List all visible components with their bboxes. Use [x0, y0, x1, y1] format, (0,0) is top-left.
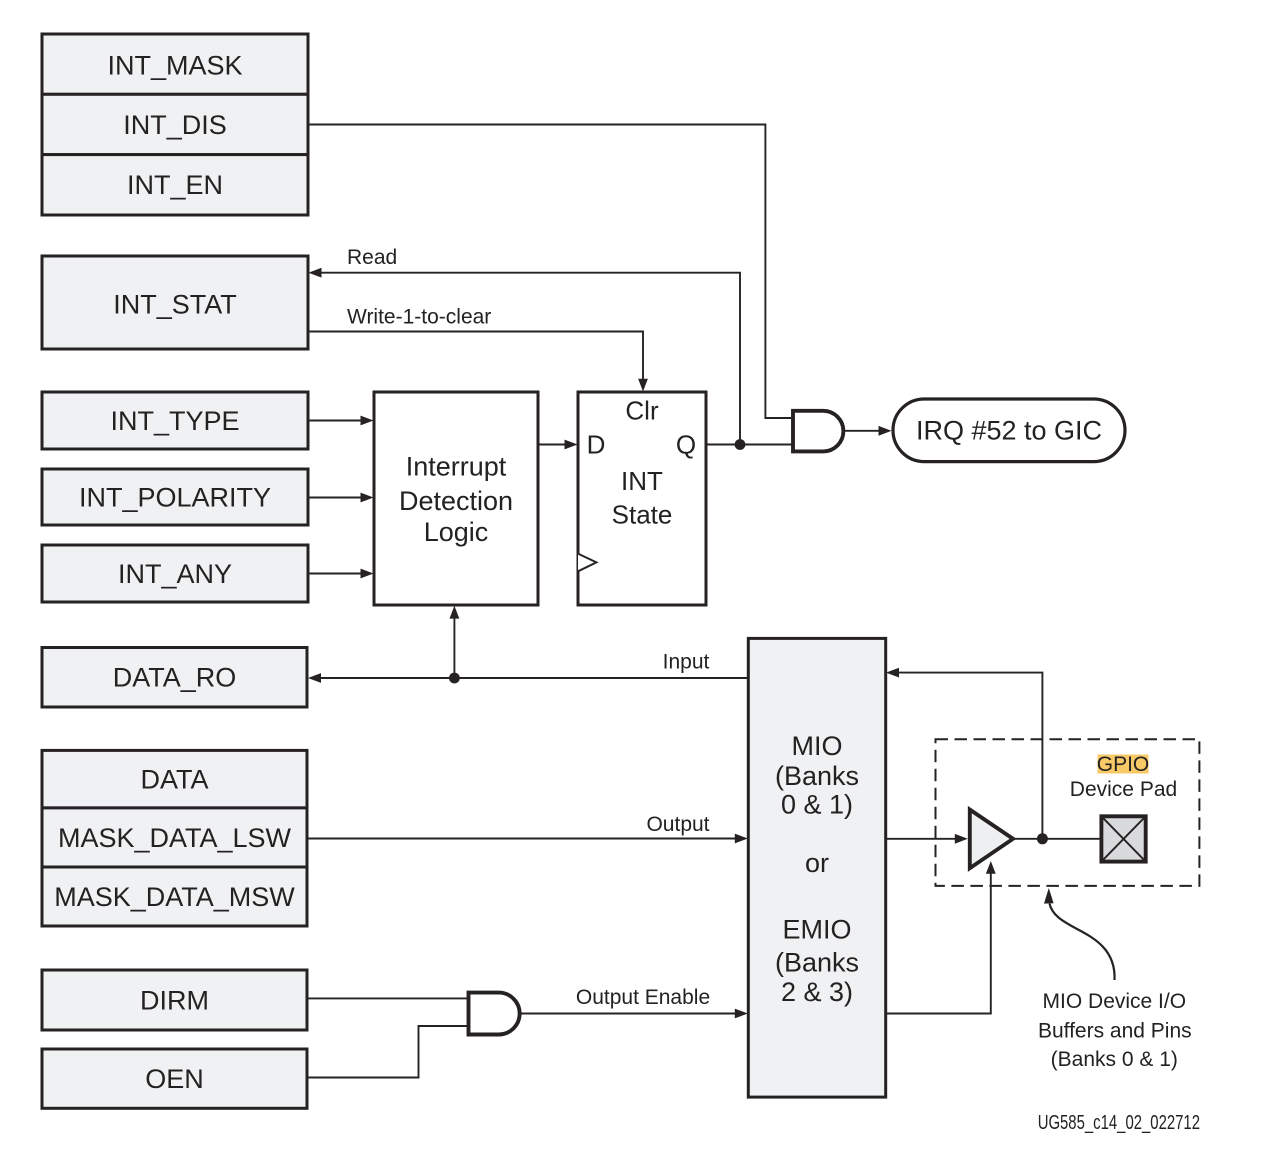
- wire Input from MIO to DATA_RO: [320, 677, 748, 679]
- svg-text:(Banks: (Banks: [775, 948, 859, 978]
- svg-text:INT_EN: INT_EN: [127, 170, 223, 200]
- arrowhead into Interrupt Detection Logic bottom: [450, 606, 460, 619]
- arrowhead Write-1-to-clear into Clr: [638, 379, 648, 392]
- register DIRM: [42, 970, 307, 1030]
- wire input node up into Interrupt Detection Logic: [453, 618, 455, 678]
- arrowhead INT_ANY: [361, 569, 374, 579]
- svg-text:UG585_c14_02_022712: UG585_c14_02_022712: [1038, 1112, 1200, 1134]
- arrowhead into buffer: [955, 834, 968, 844]
- svg-text:Output: Output: [646, 813, 709, 836]
- flip-flop INT State: [578, 392, 706, 605]
- svg-text:INT_ANY: INT_ANY: [118, 559, 232, 589]
- svg-text:Detection: Detection: [399, 486, 513, 516]
- svg-text:DATA_RO: DATA_RO: [113, 663, 237, 693]
- arrowhead INT_POLARITY: [361, 493, 374, 503]
- node pad junction dot: [1037, 833, 1048, 844]
- svg-text:MASK_DATA_LSW: MASK_DATA_LSW: [58, 823, 292, 853]
- wire Write-1-to-clear from INT_STAT to Clr: [308, 332, 643, 380]
- svg-text:MIO: MIO: [792, 731, 843, 761]
- svg-text:(Banks 0 & 1): (Banks 0 & 1): [1051, 1048, 1178, 1071]
- register MASK_DATA_LSW: [42, 808, 307, 867]
- arrowhead callout into dashed box: [1044, 888, 1054, 904]
- wire Interrupt Detection Logic to D input: [538, 444, 566, 446]
- svg-text:D: D: [587, 430, 606, 460]
- svg-text:2 & 3): 2 & 3): [781, 977, 853, 1007]
- arrowhead into MIO right edge: [886, 668, 899, 678]
- wire INT_ANY to Interrupt Detection Logic: [308, 573, 362, 575]
- arrowhead into IRQ oval: [879, 426, 892, 436]
- svg-text:INT_POLARITY: INT_POLARITY: [79, 482, 271, 512]
- register INT_ANY: [42, 545, 308, 602]
- wire Q output to G1 bottom input: [706, 444, 793, 446]
- flip-flop clock input triangle: [578, 554, 596, 572]
- arrowhead INT_TYPE: [361, 416, 374, 426]
- register DATA: [42, 750, 307, 808]
- wire DIRM to G2 top input: [307, 997, 469, 999]
- wire output enable from MIO to buffer control: [886, 874, 991, 1014]
- svg-text:IRQ #52 to GIC: IRQ #52 to GIC: [916, 416, 1102, 446]
- buffer tri-state output driver: [970, 810, 1013, 869]
- svg-text:0 & 1): 0 & 1): [781, 790, 853, 820]
- register INT_DIS: [42, 94, 308, 154]
- arrowhead Read into INT_STAT: [309, 268, 322, 278]
- register INT_EN: [42, 155, 308, 215]
- label MIO Device I/O Buffers and Pins: [1038, 990, 1192, 1071]
- label GPIO highlighted: [1097, 753, 1150, 776]
- node Q junction dot: [735, 439, 746, 450]
- register INT_MASK: [42, 34, 308, 94]
- svg-text:Buffers and Pins: Buffers and Pins: [1038, 1020, 1192, 1043]
- svg-text:State: State: [612, 500, 673, 530]
- svg-text:Device Pad: Device Pad: [1070, 778, 1177, 801]
- wire Read feedback from node Q to INT_STAT: [320, 273, 740, 445]
- svg-text:Q: Q: [676, 430, 696, 460]
- wire INT_DIS to G1 top input: [308, 125, 793, 419]
- svg-text:Clr: Clr: [625, 396, 659, 426]
- arrowhead Output Enable into MIO: [735, 1009, 748, 1019]
- svg-text:MIO Device I/O: MIO Device I/O: [1043, 990, 1187, 1013]
- svg-text:GPIO: GPIO: [1097, 753, 1150, 776]
- svg-text:INT: INT: [621, 466, 663, 496]
- arrowhead Input into DATA_RO: [308, 673, 321, 683]
- wire INT_TYPE to Interrupt Detection Logic: [308, 420, 362, 422]
- GPIO pad square: [1101, 816, 1145, 861]
- wire INT_POLARITY to Interrupt Detection Logic: [308, 497, 362, 499]
- wire pad feedback up and into MIO input: [898, 673, 1042, 839]
- callout curved arrow to dashed box: [1050, 904, 1115, 981]
- svg-text:Output Enable: Output Enable: [576, 986, 710, 1009]
- register INT_POLARITY: [42, 469, 308, 525]
- svg-text:Write-1-to-clear: Write-1-to-clear: [347, 305, 491, 328]
- register MASK_DATA_MSW: [42, 867, 307, 926]
- wire G1 output to IRQ: [843, 430, 879, 432]
- and-gate G2: [469, 993, 520, 1035]
- wire OEN to G2 bottom input: [307, 1026, 469, 1078]
- arrowhead into buffer bottom: [986, 861, 996, 874]
- wire G2 output Output Enable to MIO: [520, 1013, 736, 1015]
- svg-text:DATA: DATA: [140, 765, 208, 795]
- svg-text:Logic: Logic: [424, 517, 489, 547]
- svg-text:INT_TYPE: INT_TYPE: [110, 406, 239, 436]
- block MIO or EMIO: [748, 638, 885, 1097]
- wire MIO output to buffer: [886, 838, 956, 840]
- arrowhead into D: [565, 440, 578, 450]
- register INT_TYPE: [42, 392, 308, 449]
- register DATA_RO: [42, 648, 307, 708]
- output IRQ #52 to GIC: [893, 399, 1125, 462]
- wire buffer to GPIO pad: [1013, 838, 1101, 840]
- svg-text:Interrupt: Interrupt: [406, 452, 507, 482]
- and-gate G1: [793, 411, 843, 452]
- svg-text:MASK_DATA_MSW: MASK_DATA_MSW: [54, 882, 295, 912]
- dashed box MIO Device I/O Buffers: [936, 739, 1200, 886]
- svg-text:or: or: [805, 848, 829, 878]
- svg-text:Read: Read: [347, 246, 397, 269]
- svg-text:INT_MASK: INT_MASK: [107, 50, 242, 80]
- svg-text:EMIO: EMIO: [782, 915, 851, 945]
- register INT_STAT: [42, 256, 308, 349]
- wire Output from MASK_DATA_LSW to MIO: [307, 838, 736, 840]
- arrowhead Output into MIO: [735, 834, 748, 844]
- register OEN: [42, 1049, 307, 1108]
- svg-text:Input: Input: [663, 651, 710, 674]
- svg-text:INT_STAT: INT_STAT: [113, 289, 237, 319]
- node input junction dot: [449, 673, 460, 684]
- block U1 Interrupt Detection Logic: [374, 392, 538, 605]
- svg-text:DIRM: DIRM: [140, 985, 209, 1015]
- svg-text:INT_DIS: INT_DIS: [123, 110, 227, 140]
- svg-text:(Banks: (Banks: [775, 761, 859, 791]
- svg-text:OEN: OEN: [145, 1064, 204, 1094]
